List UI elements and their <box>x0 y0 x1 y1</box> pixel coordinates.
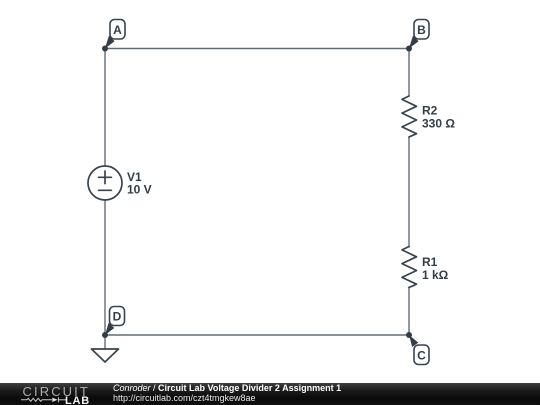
resistor R2 <box>402 96 417 137</box>
svg-text:330 Ω: 330 Ω <box>422 117 455 131</box>
wire R2 bottom to R1 top <box>408 137 410 247</box>
svg-text:LAB: LAB <box>65 395 90 405</box>
junction node B dot <box>406 46 412 52</box>
junction node A dot <box>102 46 108 52</box>
wire left A down to V1 top <box>104 49 106 167</box>
node C pointer <box>409 335 418 347</box>
node B pointer <box>409 36 419 49</box>
junction node C dot <box>406 332 412 338</box>
node C label box <box>414 345 429 365</box>
node D pointer <box>105 323 114 335</box>
node D label box <box>110 307 125 326</box>
svg-text:10 V: 10 V <box>127 183 152 197</box>
wire top A-B <box>105 48 409 50</box>
footer bar <box>0 383 540 405</box>
svg-text:B: B <box>417 23 426 37</box>
svg-text:1 kΩ: 1 kΩ <box>422 268 449 282</box>
voltage source V1 <box>88 166 122 200</box>
svg-text:R2: R2 <box>422 104 438 118</box>
svg-text:D: D <box>113 310 122 324</box>
ground <box>92 349 119 362</box>
label R2 value <box>422 104 455 131</box>
svg-text:C: C <box>417 348 426 362</box>
node A label box <box>110 20 125 40</box>
circuitlab logo <box>0 383 110 405</box>
label R1 value <box>422 255 449 282</box>
node B label box <box>414 20 429 40</box>
svg-text:R1: R1 <box>422 255 438 269</box>
node A pointer <box>105 36 115 49</box>
wire bottom D-C <box>105 334 409 336</box>
wire D to ground <box>104 335 106 349</box>
wire right B down to R2 top <box>408 49 410 97</box>
svg-text:A: A <box>113 23 122 37</box>
junction node D dot <box>102 332 108 338</box>
wire R1 bottom to C <box>408 287 410 335</box>
wire V1 bottom to D <box>104 200 106 335</box>
label V1 value <box>127 170 152 197</box>
resistor R1 <box>402 247 417 288</box>
